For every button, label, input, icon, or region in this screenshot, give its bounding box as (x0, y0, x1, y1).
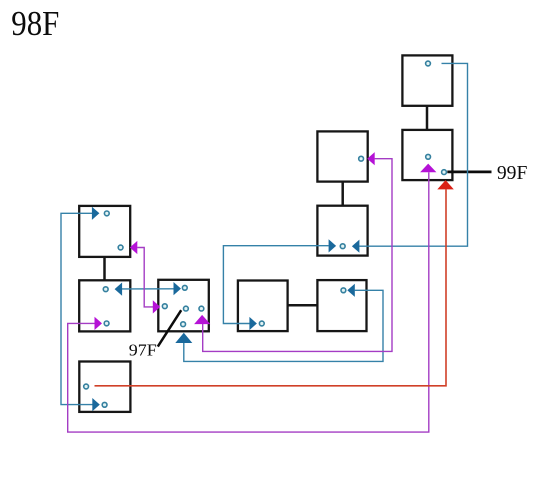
wire blue E: B6 to B7 top (122, 288, 175, 290)
arrowhead purple into B6 lower node (95, 317, 103, 330)
arrowhead blue into B5 node (92, 207, 100, 220)
node N5a in B5 (104, 211, 109, 216)
arrowhead blue into B7 top node (174, 282, 182, 295)
label line 97F (158, 310, 181, 346)
wire blue D: B7 bottom to B9 (184, 290, 383, 361)
arrowhead purple up into B7 right node (194, 315, 210, 324)
arrowhead blue into B9 node (347, 284, 355, 297)
node N7b in B7 left (162, 304, 167, 309)
svg-text:98F: 98F (11, 4, 59, 43)
box B3 (317, 131, 367, 181)
arrowhead blue into B4 node left (329, 239, 337, 252)
arrowhead blue up into B7 bottom node (175, 333, 192, 343)
arrowhead blue into B6 node (115, 283, 123, 296)
wire purple G: B6 to B2 (68, 172, 429, 432)
node N2b in B2 (442, 170, 447, 175)
node N10a in B10 (84, 384, 89, 389)
wire blue A: B5 to B10 (61, 213, 93, 404)
box B5 (79, 206, 130, 257)
node N2a in B2 (426, 154, 431, 159)
arrowhead purple up into B2 node (420, 164, 436, 173)
node N8 in B8 (259, 321, 264, 326)
wire blue C: B8 to B4 (223, 246, 328, 324)
label line 99F (447, 170, 491, 173)
box B2 (402, 130, 452, 180)
node N6b in B6 (104, 321, 109, 326)
node N3 in B3 (359, 156, 364, 161)
arrowhead purple into B7 left node (153, 300, 161, 313)
node N7e in B7 bottom (181, 322, 186, 327)
box B7 (158, 280, 209, 332)
connector B1-B2 (426, 106, 429, 130)
node N9 in B9 (341, 288, 346, 293)
connector B3-B4 (341, 182, 344, 206)
box B4 (317, 206, 367, 256)
svg-text:99F: 99F (497, 162, 528, 184)
node N4 in B4 (340, 244, 345, 249)
node N7a in B7 top (182, 285, 187, 290)
arrowhead purple into B3 node (367, 152, 375, 165)
wire red H: B10 to B2 (95, 189, 447, 386)
arrowhead red up into B2 (437, 180, 454, 189)
connector B5-B6 (103, 257, 106, 280)
box B6 (79, 280, 130, 331)
node N7d in B7 right (199, 306, 204, 311)
arrowhead purple into B5 lower node (130, 241, 138, 254)
box B8 (238, 281, 288, 332)
box B10 (79, 362, 130, 412)
node N6a in B6 (103, 287, 108, 292)
node N10b in B10 (102, 402, 107, 407)
box B1 (402, 55, 452, 105)
wire blue J: B1 to B4 (359, 63, 467, 246)
box B9 (317, 280, 366, 331)
arrowhead blue into B8 node (249, 317, 257, 330)
svg-text:97F: 97F (129, 341, 157, 360)
wire purple I: B3 to B7 right (203, 159, 392, 352)
wire purple F: B5 to B7 left (137, 248, 153, 307)
arrowhead blue into B4 node right (352, 240, 360, 253)
connector B8-B9 (288, 304, 318, 307)
node N5b in B5 (118, 245, 123, 250)
node N7c in B7 center (184, 306, 189, 311)
arrowhead blue into B10 node (92, 398, 100, 411)
node N1 in B1 (426, 61, 431, 66)
